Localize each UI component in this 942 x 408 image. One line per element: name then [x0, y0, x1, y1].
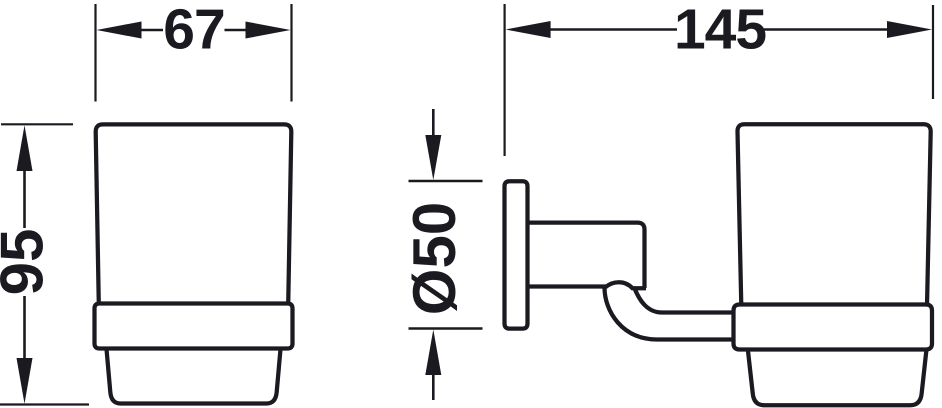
svg-text:95: 95 — [0, 229, 56, 296]
svg-text:67: 67 — [163, 0, 224, 62]
svg-text:Ø50: Ø50 — [401, 202, 468, 315]
svg-text:145: 145 — [674, 0, 766, 62]
